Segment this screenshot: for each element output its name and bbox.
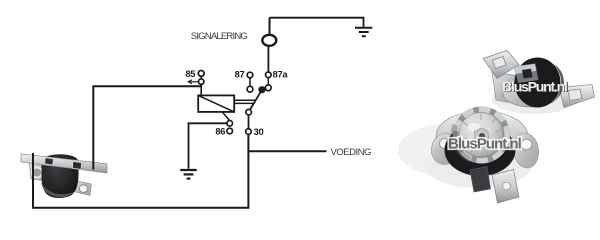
A spade hole xyxy=(522,69,533,79)
terminal 86 contact circle xyxy=(227,128,233,134)
armature pivot dot xyxy=(258,86,265,93)
B soft shadow xyxy=(398,124,494,176)
terminal 30 circle xyxy=(246,129,252,135)
wire: lamp top vertical xyxy=(269,18,271,46)
ground (below relay) xyxy=(180,170,196,179)
A left tab xyxy=(483,51,519,79)
TH1 bottom ear hole xyxy=(79,185,88,193)
svg-text:86: 86 xyxy=(215,127,225,137)
B right ear hole xyxy=(521,139,532,150)
B cap center crimp xyxy=(475,128,489,143)
A left plate end xyxy=(492,72,520,104)
svg-text:87a: 87a xyxy=(273,69,289,79)
A body sheen xyxy=(553,64,564,99)
A under shadow xyxy=(492,84,578,114)
terminal 87a upper circle xyxy=(266,72,272,78)
svg-text:87: 87 xyxy=(235,69,245,79)
wire: 85 circles link xyxy=(200,76,202,79)
terminal 85 upper circle xyxy=(198,71,204,77)
A body xyxy=(515,58,561,108)
watermark BlusPunt.nl (bottom) xyxy=(448,135,522,152)
terminal 87a contact circle xyxy=(265,85,271,91)
wire: arm to 30 xyxy=(248,115,250,129)
ground (top right) xyxy=(355,28,372,36)
TH1 terminal strip xyxy=(21,154,107,173)
relay coil box U1 xyxy=(198,95,234,112)
B cap dome xyxy=(459,113,503,157)
A flange xyxy=(503,80,559,107)
B cap lower-left shade xyxy=(454,125,470,160)
wire: top horizontal to ground xyxy=(270,17,364,19)
B left ear hole xyxy=(440,139,450,149)
svg-text:VOEDING: VOEDING xyxy=(331,147,371,158)
svg-text:BlusPunt.nl: BlusPunt.nl xyxy=(448,135,522,152)
wire: lamp to 87a xyxy=(267,46,269,72)
B cap rim base xyxy=(453,107,510,164)
B left ear xyxy=(429,131,462,167)
A right tab hole xyxy=(568,89,582,101)
mechanical link (double line) xyxy=(234,99,255,101)
wire: 87 circles link xyxy=(249,78,251,87)
TH1 disc bottom rim xyxy=(41,182,75,197)
svg-text:BlusPunt.nl: BlusPunt.nl xyxy=(502,78,567,94)
thermostat photo (right): unit B bottom xyxy=(398,107,541,204)
thermostat TH1 (photo, bottom left) xyxy=(21,154,107,198)
TH1 bottom right ear xyxy=(74,181,92,196)
wire: 85 to thermostat (left loop) xyxy=(93,84,201,169)
B black base ring xyxy=(445,124,516,176)
svg-text:85: 85 xyxy=(185,69,195,79)
terminal 86 upper circle xyxy=(227,121,233,127)
TH1 left ear hole xyxy=(32,168,42,178)
A right tab xyxy=(559,85,595,108)
wire: 30 to VOEDING branch and bottom loop xyxy=(33,134,248,207)
terminal 87 contact circle xyxy=(247,86,253,92)
wire: 86 to ground xyxy=(189,123,227,169)
switch arm K1 xyxy=(250,90,263,111)
watermark BlusPunt.nl (top) xyxy=(502,78,568,95)
B cap crimp tabs xyxy=(456,109,507,160)
A spade terminal bright edge xyxy=(514,64,537,74)
svg-text:30: 30 xyxy=(254,127,264,137)
TH1 spade hole 1 xyxy=(45,158,53,165)
B terminal 2 hole xyxy=(503,182,511,190)
arm end circle xyxy=(246,109,252,115)
B terminal 2 (bright) xyxy=(492,170,519,204)
wire: coil pin to 85 xyxy=(200,84,202,95)
B right ear xyxy=(511,131,541,169)
A spade terminal face xyxy=(516,71,539,83)
terminal 87 upper circle xyxy=(247,72,253,78)
lamp L1 (SIGNALERING indicator) xyxy=(262,35,276,46)
B plate back band xyxy=(436,111,528,161)
B terminal 1 (dark) xyxy=(470,167,491,193)
thermostat photo (right): unit A top xyxy=(483,51,595,115)
arrow at 85 xyxy=(189,81,198,83)
wire: 87a circles link xyxy=(267,78,269,85)
TH1 spade hole 2 xyxy=(73,162,82,170)
wire: ground stem top right xyxy=(363,17,365,27)
TH1 body disc xyxy=(42,154,79,198)
A left tab hole xyxy=(493,57,507,69)
B cap fold lines xyxy=(461,114,503,155)
svg-text:SIGNALERING: SIGNALERING xyxy=(191,31,248,42)
TH1 left ear xyxy=(29,160,47,181)
B cap center dot xyxy=(479,133,485,139)
coil diagonal xyxy=(198,95,234,112)
terminal 85 contact circle xyxy=(199,79,204,84)
wire: VOEDING feed xyxy=(248,150,326,152)
wire: coil pin to 86 xyxy=(223,112,230,120)
B cap plateau xyxy=(466,121,490,141)
